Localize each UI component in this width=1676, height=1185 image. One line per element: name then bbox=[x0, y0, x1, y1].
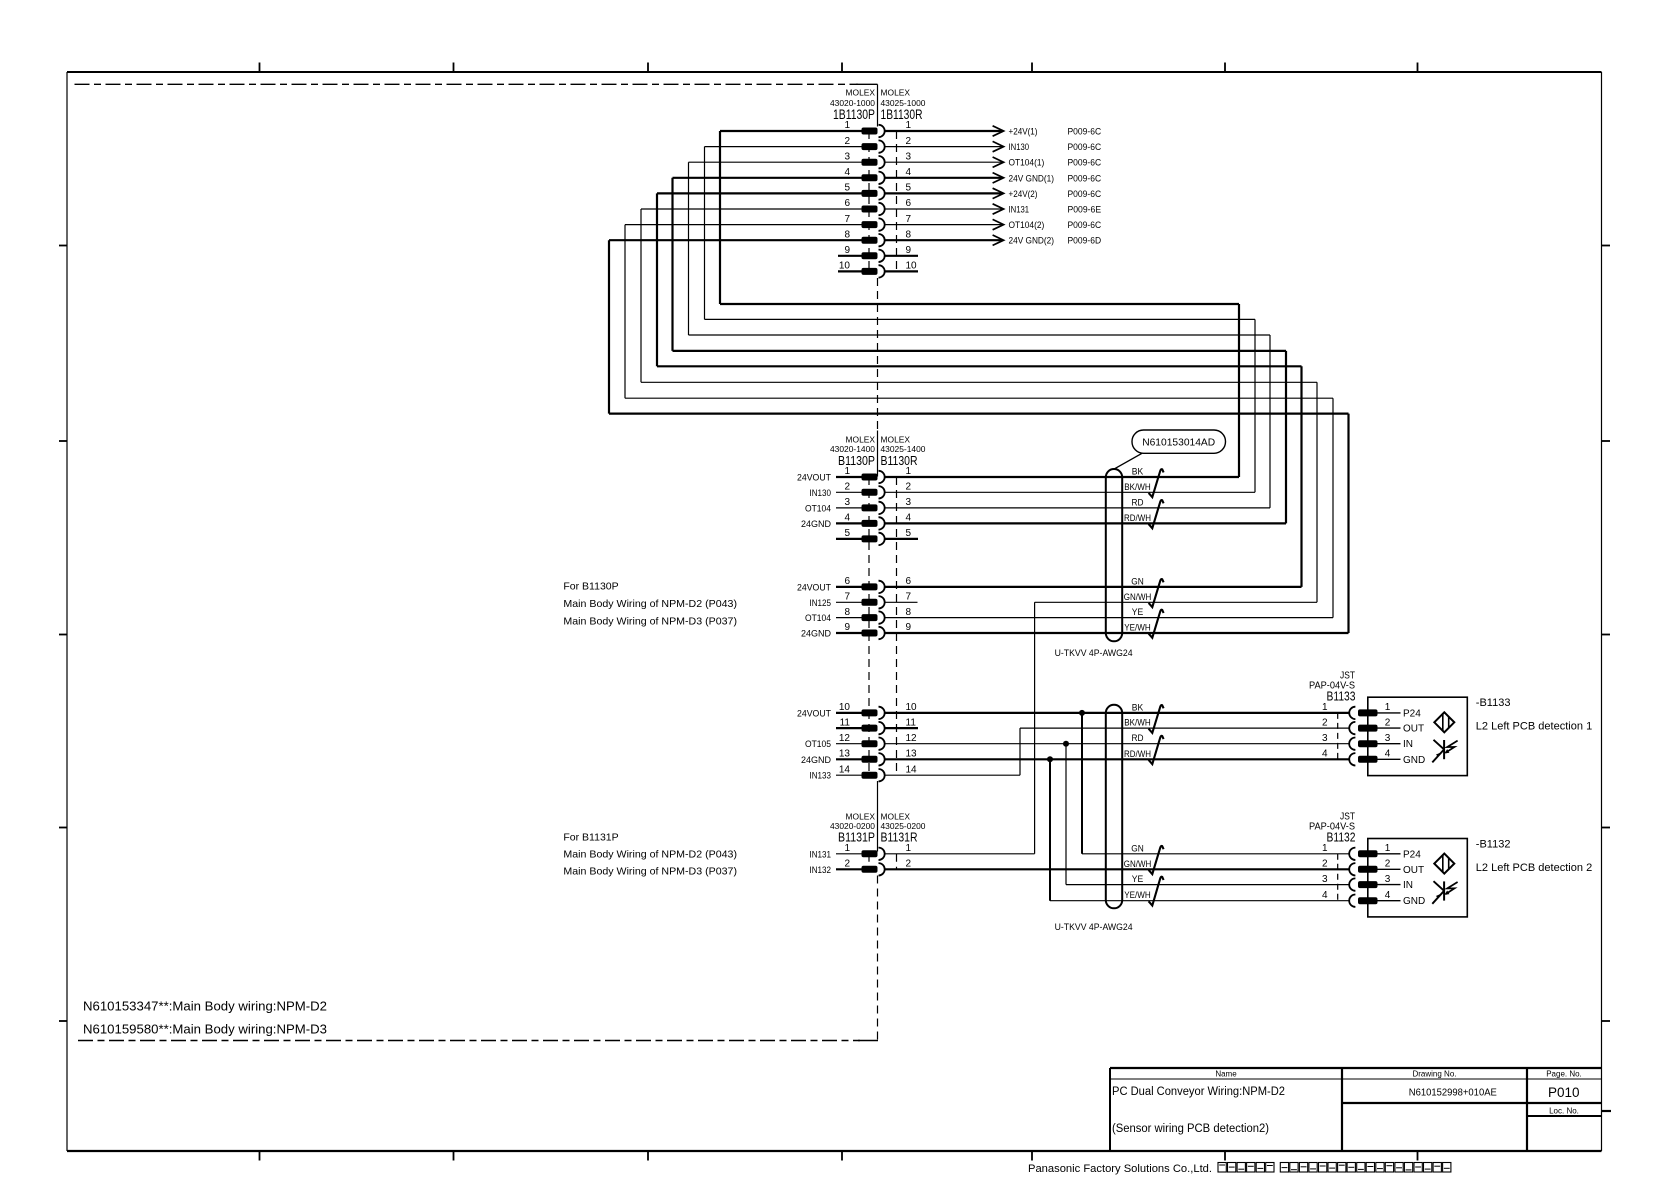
svg-text:24V GND(1): 24V GND(1) bbox=[1009, 173, 1055, 184]
svg-text:13: 13 bbox=[839, 749, 851, 760]
junction OT105 (pin12/RD) bbox=[1063, 741, 1069, 747]
svg-text:IN131: IN131 bbox=[810, 849, 832, 860]
connector B1131P part no 43020-0200 bbox=[830, 821, 875, 831]
svg-text:24VOUT: 24VOUT bbox=[797, 582, 831, 593]
connector B1131 dashed body lines bbox=[869, 854, 897, 870]
connector B1130 pin 4 bbox=[801, 513, 912, 530]
title block drawing number bbox=[1409, 1088, 1497, 1099]
title block page number P010 bbox=[1548, 1085, 1580, 1100]
svg-text:8: 8 bbox=[844, 229, 850, 240]
wire IN131 vertical (GN/WH to B1131) bbox=[1034, 602, 1036, 854]
svg-text:9: 9 bbox=[844, 622, 850, 633]
svg-text:24GND: 24GND bbox=[801, 629, 831, 640]
svg-text:7: 7 bbox=[906, 592, 912, 603]
svg-text:3: 3 bbox=[906, 151, 912, 162]
svg-text:2: 2 bbox=[906, 482, 912, 493]
svg-text:8: 8 bbox=[906, 229, 912, 240]
connector 1B1130 pin 8 bbox=[609, 229, 912, 246]
wire loop pin 4 bbox=[673, 178, 1287, 524]
svg-text:Main Body Wiring of NPM-D2 (P0: Main Body Wiring of NPM-D2 (P043) bbox=[563, 849, 737, 861]
cable1 type label U-TKVV 4P-AWG24 bbox=[1055, 648, 1133, 658]
svg-text:P24: P24 bbox=[1403, 708, 1421, 719]
cable2 wire GN/WH bbox=[885, 859, 1349, 870]
connector 1B1130 pin 2 bbox=[705, 136, 912, 153]
connector B1130 pin 10 bbox=[797, 702, 917, 719]
svg-text:B1130R: B1130R bbox=[881, 453, 918, 468]
sensor designator -B1132 bbox=[1476, 838, 1511, 850]
svg-text:U-TKVV 4P-AWG24: U-TKVV 4P-AWG24 bbox=[1055, 922, 1133, 932]
svg-text:RD: RD bbox=[1132, 733, 1144, 743]
svg-text:B1133: B1133 bbox=[1327, 689, 1356, 704]
svg-text:2: 2 bbox=[844, 136, 850, 147]
wire loop pin 8 bbox=[609, 240, 1349, 633]
cable1 twisted pair mark RD/RDWH bbox=[1149, 500, 1164, 528]
svg-text:YE: YE bbox=[1132, 874, 1144, 884]
cable2 wire RD/WH bbox=[885, 749, 1349, 760]
connector B1131 pin 1 bbox=[810, 843, 1035, 860]
connector B1130 dashed body lines bbox=[869, 477, 897, 775]
svg-text:GND: GND bbox=[1403, 755, 1425, 766]
connector B1132 label JST bbox=[1340, 812, 1355, 823]
connector B1132 pin 2 bbox=[1322, 859, 1424, 876]
connector B1132 pin 4 bbox=[1322, 890, 1425, 907]
svg-text:24GND: 24GND bbox=[801, 519, 831, 530]
svg-text:IN: IN bbox=[1403, 880, 1413, 891]
wire IN131 to P009-6E bbox=[885, 204, 1101, 216]
connector 1B1130 pin 1 bbox=[720, 120, 912, 137]
cable1 wire GN/WH bbox=[1035, 592, 1317, 603]
footer company name japanese (glyph boxes) bbox=[1218, 1163, 1451, 1173]
connector 1B1130 header divider bbox=[877, 84, 879, 126]
cable2 twisted pair mark BK/BKWH bbox=[1149, 705, 1164, 733]
svg-text:11: 11 bbox=[906, 717, 917, 728]
sensor designator -B1133 bbox=[1476, 697, 1511, 709]
svg-text:IN133: IN133 bbox=[810, 771, 832, 782]
junction 24GND (pin13/RD-WH) bbox=[1047, 756, 1053, 762]
svg-text:GN/WH: GN/WH bbox=[1124, 859, 1152, 869]
cable1 shield oval bbox=[1106, 469, 1122, 641]
connector B1130 pin 13 bbox=[801, 749, 917, 766]
cable2 twisted pair mark YE/YEWH bbox=[1149, 877, 1164, 906]
svg-text:6: 6 bbox=[906, 576, 912, 587]
sensor B1133 description bbox=[1476, 721, 1592, 733]
svg-text:MOLEX: MOLEX bbox=[881, 811, 911, 821]
svg-text:6: 6 bbox=[906, 198, 912, 209]
cable2 type label U-TKVV 4P-AWG24 bbox=[1055, 922, 1133, 932]
svg-text:10: 10 bbox=[906, 261, 918, 272]
svg-text:OUT: OUT bbox=[1403, 865, 1424, 876]
svg-text:P009-6E: P009-6E bbox=[1068, 205, 1102, 216]
svg-text:6: 6 bbox=[844, 198, 850, 209]
wire loop pin 6 bbox=[641, 209, 1317, 602]
connector B1130P name bbox=[838, 453, 875, 468]
svg-text:4: 4 bbox=[844, 513, 850, 524]
connector B1130 pin 9 bbox=[801, 622, 912, 639]
junction 24VOUT (pin10/BK) bbox=[1079, 710, 1085, 716]
svg-text:+24V(2): +24V(2) bbox=[1009, 189, 1038, 200]
svg-text:3: 3 bbox=[844, 497, 850, 508]
svg-text:L2 Left PCB detection 1: L2 Left PCB detection 1 bbox=[1476, 721, 1592, 733]
wire +24V(2) to P009-6C bbox=[885, 188, 1101, 200]
title block label Page. No. bbox=[1546, 1070, 1582, 1079]
chain line bottom (main body wiring boundary) bbox=[78, 1040, 878, 1042]
svg-text:IN: IN bbox=[1403, 739, 1413, 750]
cable1 twisted pair mark GN/GNWH bbox=[1149, 579, 1164, 607]
connector 1B1130 pin 10 bbox=[838, 261, 918, 278]
svg-text:8: 8 bbox=[844, 607, 850, 618]
svg-text:OT105: OT105 bbox=[805, 739, 831, 750]
svg-text:5: 5 bbox=[906, 528, 912, 539]
wire OT104(1) to P009-6C bbox=[885, 157, 1101, 169]
svg-text:1: 1 bbox=[906, 843, 912, 854]
connector 1B1130R label MOLEX bbox=[881, 87, 911, 97]
svg-text:4: 4 bbox=[906, 167, 912, 178]
wire loop pin 2 bbox=[705, 147, 1256, 493]
svg-text:2: 2 bbox=[906, 859, 912, 870]
connector 1B1130 pin 5 bbox=[657, 183, 912, 200]
sensor B1132 receiver symbol bbox=[1432, 881, 1457, 904]
svg-text:P009-6C: P009-6C bbox=[1068, 158, 1102, 169]
chain line top (main body wiring boundary) bbox=[75, 83, 878, 85]
svg-text:Name: Name bbox=[1215, 1070, 1237, 1079]
connector B1130 pin 2 bbox=[810, 482, 912, 499]
svg-text:OT104: OT104 bbox=[805, 613, 831, 624]
svg-text:Panasonic Factory Solutions Co: Panasonic Factory Solutions Co.,Ltd. bbox=[1028, 1163, 1212, 1175]
svg-text:1: 1 bbox=[1385, 843, 1391, 854]
cable1 twisted pair mark YE/YEWH bbox=[1149, 610, 1164, 638]
svg-text:Main Body Wiring of NPM-D3 (P0: Main Body Wiring of NPM-D3 (P037) bbox=[563, 866, 737, 878]
title block frame bbox=[1110, 1068, 1602, 1151]
connector B1132 pin 3 bbox=[1322, 874, 1413, 891]
svg-text:Main Body Wiring of NPM-D2 (P0: Main Body Wiring of NPM-D2 (P043) bbox=[563, 598, 737, 610]
svg-text:3: 3 bbox=[906, 497, 912, 508]
svg-text:2: 2 bbox=[906, 136, 912, 147]
svg-text:11: 11 bbox=[840, 717, 851, 728]
dashed column below 1B1130 bbox=[877, 278, 879, 431]
svg-text:MOLEX: MOLEX bbox=[881, 87, 911, 97]
connector B1130 header divider bbox=[877, 431, 879, 477]
cable1 twisted pair mark BK/BKWH bbox=[1149, 469, 1164, 497]
svg-text:RD/WH: RD/WH bbox=[1124, 513, 1151, 523]
wire 24V GND(1) to P009-6C bbox=[885, 173, 1101, 185]
svg-text:For B1131P: For B1131P bbox=[563, 832, 618, 844]
svg-text:1B1130R: 1B1130R bbox=[881, 107, 923, 122]
svg-text:P009-6C: P009-6C bbox=[1068, 142, 1102, 153]
svg-text:2: 2 bbox=[1322, 859, 1328, 870]
connector 1B1130 dashed body lines bbox=[869, 131, 897, 271]
svg-text:13: 13 bbox=[906, 749, 918, 760]
connector 1B1130P label MOLEX bbox=[846, 87, 876, 97]
wire OT104(2) to P009-6C bbox=[885, 219, 1101, 231]
connector B1130 pin 7 bbox=[810, 592, 912, 609]
cable1 wire BK bbox=[885, 467, 1239, 478]
svg-text:2: 2 bbox=[1322, 717, 1328, 728]
svg-text:IN130: IN130 bbox=[1009, 142, 1030, 153]
svg-text:MOLEX: MOLEX bbox=[846, 811, 876, 821]
svg-text:PC Dual Conveyor Wiring:NPM-D2: PC Dual Conveyor Wiring:NPM-D2 bbox=[1112, 1086, 1285, 1098]
cable2 shield oval bbox=[1106, 705, 1122, 909]
connector B1130 pin 3 bbox=[805, 497, 912, 514]
svg-text:+24V(1): +24V(1) bbox=[1009, 127, 1038, 138]
sensor B1132 description bbox=[1476, 862, 1592, 874]
svg-text:N610153014AD: N610153014AD bbox=[1142, 437, 1215, 449]
sensor B1133 box bbox=[1368, 697, 1468, 775]
svg-text:4: 4 bbox=[1385, 890, 1391, 901]
svg-text:2: 2 bbox=[844, 859, 850, 870]
connector B1133 pin 1 bbox=[1322, 702, 1421, 719]
svg-text:1: 1 bbox=[844, 843, 850, 854]
connector B1132 dashed body line bbox=[1337, 854, 1339, 901]
connector B1131P name bbox=[838, 830, 875, 845]
cable2 wire BK/WH bbox=[1020, 718, 1349, 729]
cable2 twisted pair mark RD/RDWH bbox=[1149, 736, 1164, 764]
connector 1B1130P name bbox=[833, 107, 875, 122]
wire +24V(1) to P009-6C bbox=[885, 126, 1101, 138]
svg-text:14: 14 bbox=[839, 764, 851, 775]
cable2 twisted pair mark GN/GNWH bbox=[1149, 846, 1164, 874]
cable1 wire BK/WH bbox=[885, 482, 1255, 493]
connector B1132 label PAP-04V-S bbox=[1309, 822, 1355, 833]
wire loop pin 3 bbox=[689, 162, 1271, 508]
svg-text:5: 5 bbox=[844, 528, 850, 539]
svg-text:2: 2 bbox=[1385, 717, 1391, 728]
connector B1133 label PAP-04V-S bbox=[1309, 681, 1355, 692]
cable1 wire RD/WH bbox=[885, 513, 1286, 524]
svg-text:OUT: OUT bbox=[1403, 724, 1424, 735]
svg-text:4: 4 bbox=[906, 513, 912, 524]
connector B1130R label MOLEX bbox=[881, 435, 911, 445]
svg-text:BK: BK bbox=[1132, 467, 1144, 477]
svg-text:12: 12 bbox=[839, 733, 851, 744]
svg-text:1B1130P: 1B1130P bbox=[833, 107, 875, 122]
svg-text:P009-6C: P009-6C bbox=[1068, 127, 1102, 138]
svg-text:GN/WH: GN/WH bbox=[1124, 592, 1152, 602]
connector B1130R name bbox=[881, 453, 918, 468]
wire 24V GND(2) to P009-6D bbox=[885, 235, 1101, 247]
svg-text:Drawing No.: Drawing No. bbox=[1412, 1070, 1456, 1079]
connector B1131 pin 2 bbox=[810, 859, 912, 876]
svg-text:2: 2 bbox=[1385, 859, 1391, 870]
connector 1B1130 pin 4 bbox=[673, 167, 912, 184]
connector B1133 name bbox=[1327, 689, 1356, 704]
svg-text:5: 5 bbox=[844, 183, 850, 194]
note For B1130P bbox=[563, 581, 737, 628]
title block label Drawing No. bbox=[1412, 1070, 1456, 1079]
note main body wiring NPM-D2 bbox=[83, 999, 327, 1014]
svg-text:GN: GN bbox=[1131, 576, 1144, 586]
svg-text:10: 10 bbox=[839, 261, 851, 272]
svg-text:7: 7 bbox=[844, 214, 850, 225]
connector B1130 pin 5 bbox=[836, 528, 912, 545]
connector 1B1130R name bbox=[881, 107, 923, 122]
wire loop pin 7 bbox=[625, 225, 1333, 618]
svg-text:YE/WH: YE/WH bbox=[1124, 890, 1151, 900]
connector B1131R label MOLEX bbox=[881, 811, 911, 821]
svg-text:YE: YE bbox=[1132, 607, 1144, 617]
svg-text:9: 9 bbox=[906, 622, 912, 633]
sensor B1133 emitter symbol bbox=[1434, 712, 1454, 732]
connector B1130 pin 6 bbox=[797, 576, 912, 593]
svg-text:U-TKVV 4P-AWG24: U-TKVV 4P-AWG24 bbox=[1055, 648, 1133, 658]
svg-text:3: 3 bbox=[1322, 733, 1328, 744]
stub wire B1130 pin 7 bbox=[885, 601, 918, 603]
svg-text:BK: BK bbox=[1132, 702, 1144, 712]
branch wire 24VOUT to B1132 P24 bbox=[1081, 713, 1083, 854]
cable2 wire BK bbox=[885, 702, 1349, 713]
svg-text:6: 6 bbox=[844, 576, 850, 587]
svg-text:24VOUT: 24VOUT bbox=[797, 473, 831, 484]
svg-text:3: 3 bbox=[1385, 733, 1391, 744]
connector 1B1130R part no 43025-1000 bbox=[881, 98, 926, 108]
cable2 wire YE/WH bbox=[1050, 890, 1349, 901]
svg-text:1: 1 bbox=[1322, 843, 1328, 854]
svg-text:P009-6C: P009-6C bbox=[1068, 173, 1102, 184]
connector B1132 pin 1 bbox=[1322, 843, 1421, 860]
connector B1131R part no 43025-0200 bbox=[881, 821, 926, 831]
connector B1130P part no 43020-1400 bbox=[830, 444, 875, 454]
svg-text:12: 12 bbox=[906, 733, 918, 744]
svg-text:OT104(2): OT104(2) bbox=[1009, 220, 1045, 231]
connector B1132 name bbox=[1327, 830, 1356, 845]
svg-text:5: 5 bbox=[906, 183, 912, 194]
svg-text:Page. No.: Page. No. bbox=[1546, 1070, 1582, 1079]
title block drawing name bbox=[1112, 1086, 1285, 1135]
svg-text:1: 1 bbox=[1385, 702, 1391, 713]
svg-text:-B1132: -B1132 bbox=[1476, 838, 1511, 850]
title block label Name bbox=[1215, 1070, 1237, 1079]
cable2 wire GN bbox=[1082, 843, 1349, 854]
svg-text:3: 3 bbox=[844, 151, 850, 162]
cable2 wire RD bbox=[885, 733, 1349, 744]
connector B1133 pin 4 bbox=[1322, 749, 1425, 766]
svg-text:-B1133: -B1133 bbox=[1476, 697, 1511, 709]
svg-text:IN132: IN132 bbox=[810, 865, 832, 876]
svg-text:4: 4 bbox=[1385, 749, 1391, 760]
svg-text:RD: RD bbox=[1132, 497, 1144, 507]
svg-text:GN: GN bbox=[1131, 843, 1144, 853]
svg-text:1: 1 bbox=[906, 466, 912, 477]
sensor B1132 box bbox=[1368, 839, 1468, 917]
connector B1133 label JST bbox=[1340, 671, 1355, 682]
connector 1B1130 pin 6 bbox=[641, 198, 912, 215]
connector B1131P label MOLEX bbox=[846, 811, 876, 821]
svg-text:1: 1 bbox=[1322, 702, 1328, 713]
connector B1131R name bbox=[881, 830, 918, 845]
svg-text:YE/WH: YE/WH bbox=[1124, 623, 1151, 633]
svg-text:9: 9 bbox=[844, 245, 850, 256]
wire loop pin 5 bbox=[657, 193, 1302, 587]
connector B1130 pin 11 bbox=[836, 717, 916, 734]
svg-text:N610152998+010AE: N610152998+010AE bbox=[1409, 1088, 1497, 1099]
svg-text:7: 7 bbox=[844, 592, 850, 603]
svg-text:3: 3 bbox=[1385, 874, 1391, 885]
connector B1130R part no 43025-1400 bbox=[881, 444, 926, 454]
connector B1131 divider line bbox=[877, 781, 879, 852]
svg-text:7: 7 bbox=[906, 214, 912, 225]
svg-text:N610153347**:Main Body wiring:: N610153347**:Main Body wiring:NPM-D2 bbox=[83, 999, 327, 1014]
connector B1133 pin 2 bbox=[1322, 717, 1424, 734]
cable part number balloon N610153014AD bbox=[1114, 430, 1226, 469]
svg-text:1: 1 bbox=[906, 120, 912, 131]
cable1 wire RD bbox=[885, 497, 1270, 508]
svg-text:10: 10 bbox=[839, 702, 851, 713]
connector B1130 pin 14 bbox=[810, 764, 918, 781]
svg-text:P24: P24 bbox=[1403, 849, 1421, 860]
svg-text:1: 1 bbox=[844, 120, 850, 131]
svg-text:Loc. No.: Loc. No. bbox=[1549, 1107, 1579, 1116]
wire loop pin 1 bbox=[720, 131, 1239, 477]
svg-text:RD/WH: RD/WH bbox=[1124, 749, 1151, 759]
svg-text:BK/WH: BK/WH bbox=[1124, 718, 1151, 728]
cable1 wire YE/WH bbox=[885, 623, 1349, 634]
cable1 wire YE bbox=[885, 607, 1333, 618]
svg-text:P009-6D: P009-6D bbox=[1068, 236, 1102, 247]
svg-text:For B1130P: For B1130P bbox=[563, 581, 618, 593]
svg-text:P009-6C: P009-6C bbox=[1068, 189, 1102, 200]
svg-text:MOLEX: MOLEX bbox=[846, 87, 876, 97]
note For B1131P bbox=[563, 832, 737, 878]
sensor B1133 receiver symbol bbox=[1432, 740, 1457, 763]
svg-text:4: 4 bbox=[844, 167, 850, 178]
svg-text:9: 9 bbox=[906, 245, 912, 256]
svg-text:Main Body Wiring of NPM-D3 (P0: Main Body Wiring of NPM-D3 (P037) bbox=[563, 616, 737, 628]
wire IN130 to P009-6C bbox=[885, 141, 1101, 153]
connector B1133 dashed body line bbox=[1337, 713, 1339, 759]
svg-text:IN130: IN130 bbox=[810, 488, 832, 499]
svg-text:L2 Left PCB detection 2: L2 Left PCB detection 2 bbox=[1476, 862, 1592, 874]
connector 1B1130 pin 3 bbox=[689, 151, 912, 168]
branch wire 24GND to B1132 GND bbox=[1049, 759, 1051, 900]
svg-text:4: 4 bbox=[1322, 749, 1328, 760]
svg-text:8: 8 bbox=[906, 607, 912, 618]
svg-text:(Sensor wiring PCB detection2): (Sensor wiring PCB detection2) bbox=[1112, 1123, 1269, 1135]
svg-text:GND: GND bbox=[1403, 896, 1425, 907]
svg-text:OT104(1): OT104(1) bbox=[1009, 158, 1045, 169]
stub wire B1130 pin 11 bbox=[885, 727, 918, 729]
svg-text:10: 10 bbox=[906, 702, 918, 713]
svg-text:3: 3 bbox=[1322, 874, 1328, 885]
svg-text:OT104: OT104 bbox=[805, 503, 831, 514]
connector 1B1130 pin 7 bbox=[625, 214, 912, 231]
connector B1130 pin 8 bbox=[805, 607, 912, 624]
title block label Loc. No. bbox=[1549, 1107, 1579, 1116]
stub wire B1130 pin 5 bbox=[885, 538, 918, 540]
wire IN133 (pin14 to BK/WH) bbox=[885, 728, 1020, 775]
svg-text:IN125: IN125 bbox=[810, 598, 832, 609]
svg-text:4: 4 bbox=[1322, 890, 1328, 901]
svg-text:P010: P010 bbox=[1548, 1085, 1580, 1100]
footer company name latin bbox=[1028, 1163, 1212, 1175]
svg-text:1: 1 bbox=[844, 466, 850, 477]
svg-text:N610159580**:Main Body wiring:: N610159580**:Main Body wiring:NPM-D3 bbox=[83, 1022, 327, 1037]
sensor B1132 emitter symbol bbox=[1434, 854, 1454, 874]
svg-text:BK/WH: BK/WH bbox=[1124, 482, 1151, 492]
connector B1130 pin 1 bbox=[797, 466, 912, 483]
connector 1B1130 pin 9 bbox=[838, 245, 918, 262]
svg-text:B1131R: B1131R bbox=[881, 830, 918, 845]
svg-text:24VOUT: 24VOUT bbox=[797, 708, 831, 719]
connector 1B1130P part no 43020-1000 bbox=[830, 98, 875, 108]
svg-text:IN131: IN131 bbox=[1009, 205, 1030, 216]
cable1 wire GN bbox=[885, 576, 1302, 587]
connector B1130 pin 12 bbox=[805, 733, 917, 750]
svg-text:P009-6C: P009-6C bbox=[1068, 220, 1102, 231]
connector B1133 pin 3 bbox=[1322, 733, 1413, 750]
svg-text:B1132: B1132 bbox=[1327, 830, 1356, 845]
note main body wiring NPM-D3 bbox=[83, 1022, 327, 1037]
svg-text:24GND: 24GND bbox=[801, 755, 831, 766]
dashed column below B1131 bbox=[877, 876, 879, 1041]
